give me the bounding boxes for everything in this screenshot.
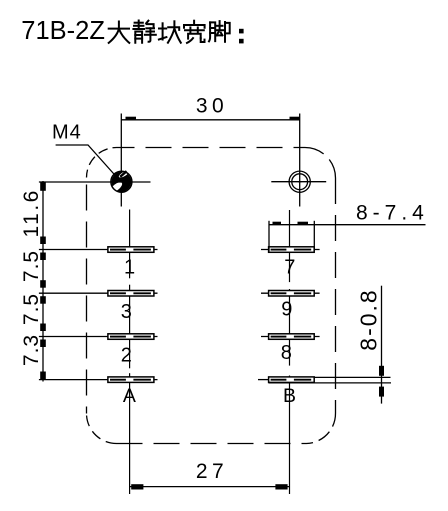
svg-text:3: 3 bbox=[121, 301, 132, 323]
svg-text:9: 9 bbox=[281, 299, 292, 321]
svg-text:11.6: 11.6 bbox=[20, 188, 43, 237]
svg-text:8: 8 bbox=[281, 342, 292, 364]
svg-text:7.3: 7.3 bbox=[20, 334, 43, 366]
svg-text:8-0.8: 8-0.8 bbox=[356, 288, 382, 350]
svg-text:B: B bbox=[283, 385, 296, 407]
svg-text:7.5: 7.5 bbox=[20, 250, 43, 282]
svg-text:7.5: 7.5 bbox=[20, 293, 43, 325]
svg-text:A: A bbox=[123, 385, 136, 407]
svg-text:71B-2Z: 71B-2Z bbox=[21, 17, 105, 45]
svg-text:1: 1 bbox=[124, 257, 135, 279]
svg-text:2: 2 bbox=[121, 345, 132, 367]
svg-text:27: 27 bbox=[196, 460, 228, 483]
svg-text:M4: M4 bbox=[52, 122, 82, 144]
svg-text:8-7.4: 8-7.4 bbox=[356, 202, 429, 225]
svg-text:7: 7 bbox=[284, 257, 295, 279]
svg-text:30: 30 bbox=[196, 95, 228, 118]
